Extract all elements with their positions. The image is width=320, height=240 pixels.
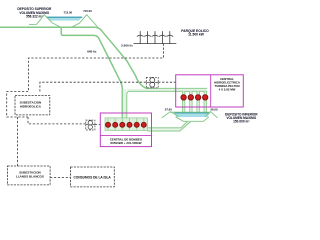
svg-text:8X500kW + 2X1.500kW: 8X500kW + 2X1.500kW <box>110 141 141 145</box>
svg-text:556.322 m³: 556.322 m³ <box>26 15 42 19</box>
svg-text:4 X 2,83 MW: 4 X 2,83 MW <box>219 87 236 91</box>
svg-text:150.000 m³: 150.000 m³ <box>233 120 249 124</box>
svg-text:11.500 kW: 11.500 kW <box>188 32 205 36</box>
svg-text:56.00: 56.00 <box>211 108 218 112</box>
svg-text:HIDROEOLICA: HIDROEOLICA <box>20 105 42 109</box>
svg-text:CONSUMOS DE LA ISLA: CONSUMOS DE LA ISLA <box>73 176 111 180</box>
svg-text:710.00: 710.00 <box>83 9 92 13</box>
svg-text:57.00: 57.00 <box>165 108 172 112</box>
svg-text:LLANOS BLANCOS: LLANOS BLANCOS <box>16 174 44 178</box>
svg-text:713.00: 713.00 <box>64 10 73 14</box>
svg-text:660 l/s: 660 l/s <box>87 50 97 54</box>
svg-text:2.000 l/s: 2.000 l/s <box>121 43 133 47</box>
